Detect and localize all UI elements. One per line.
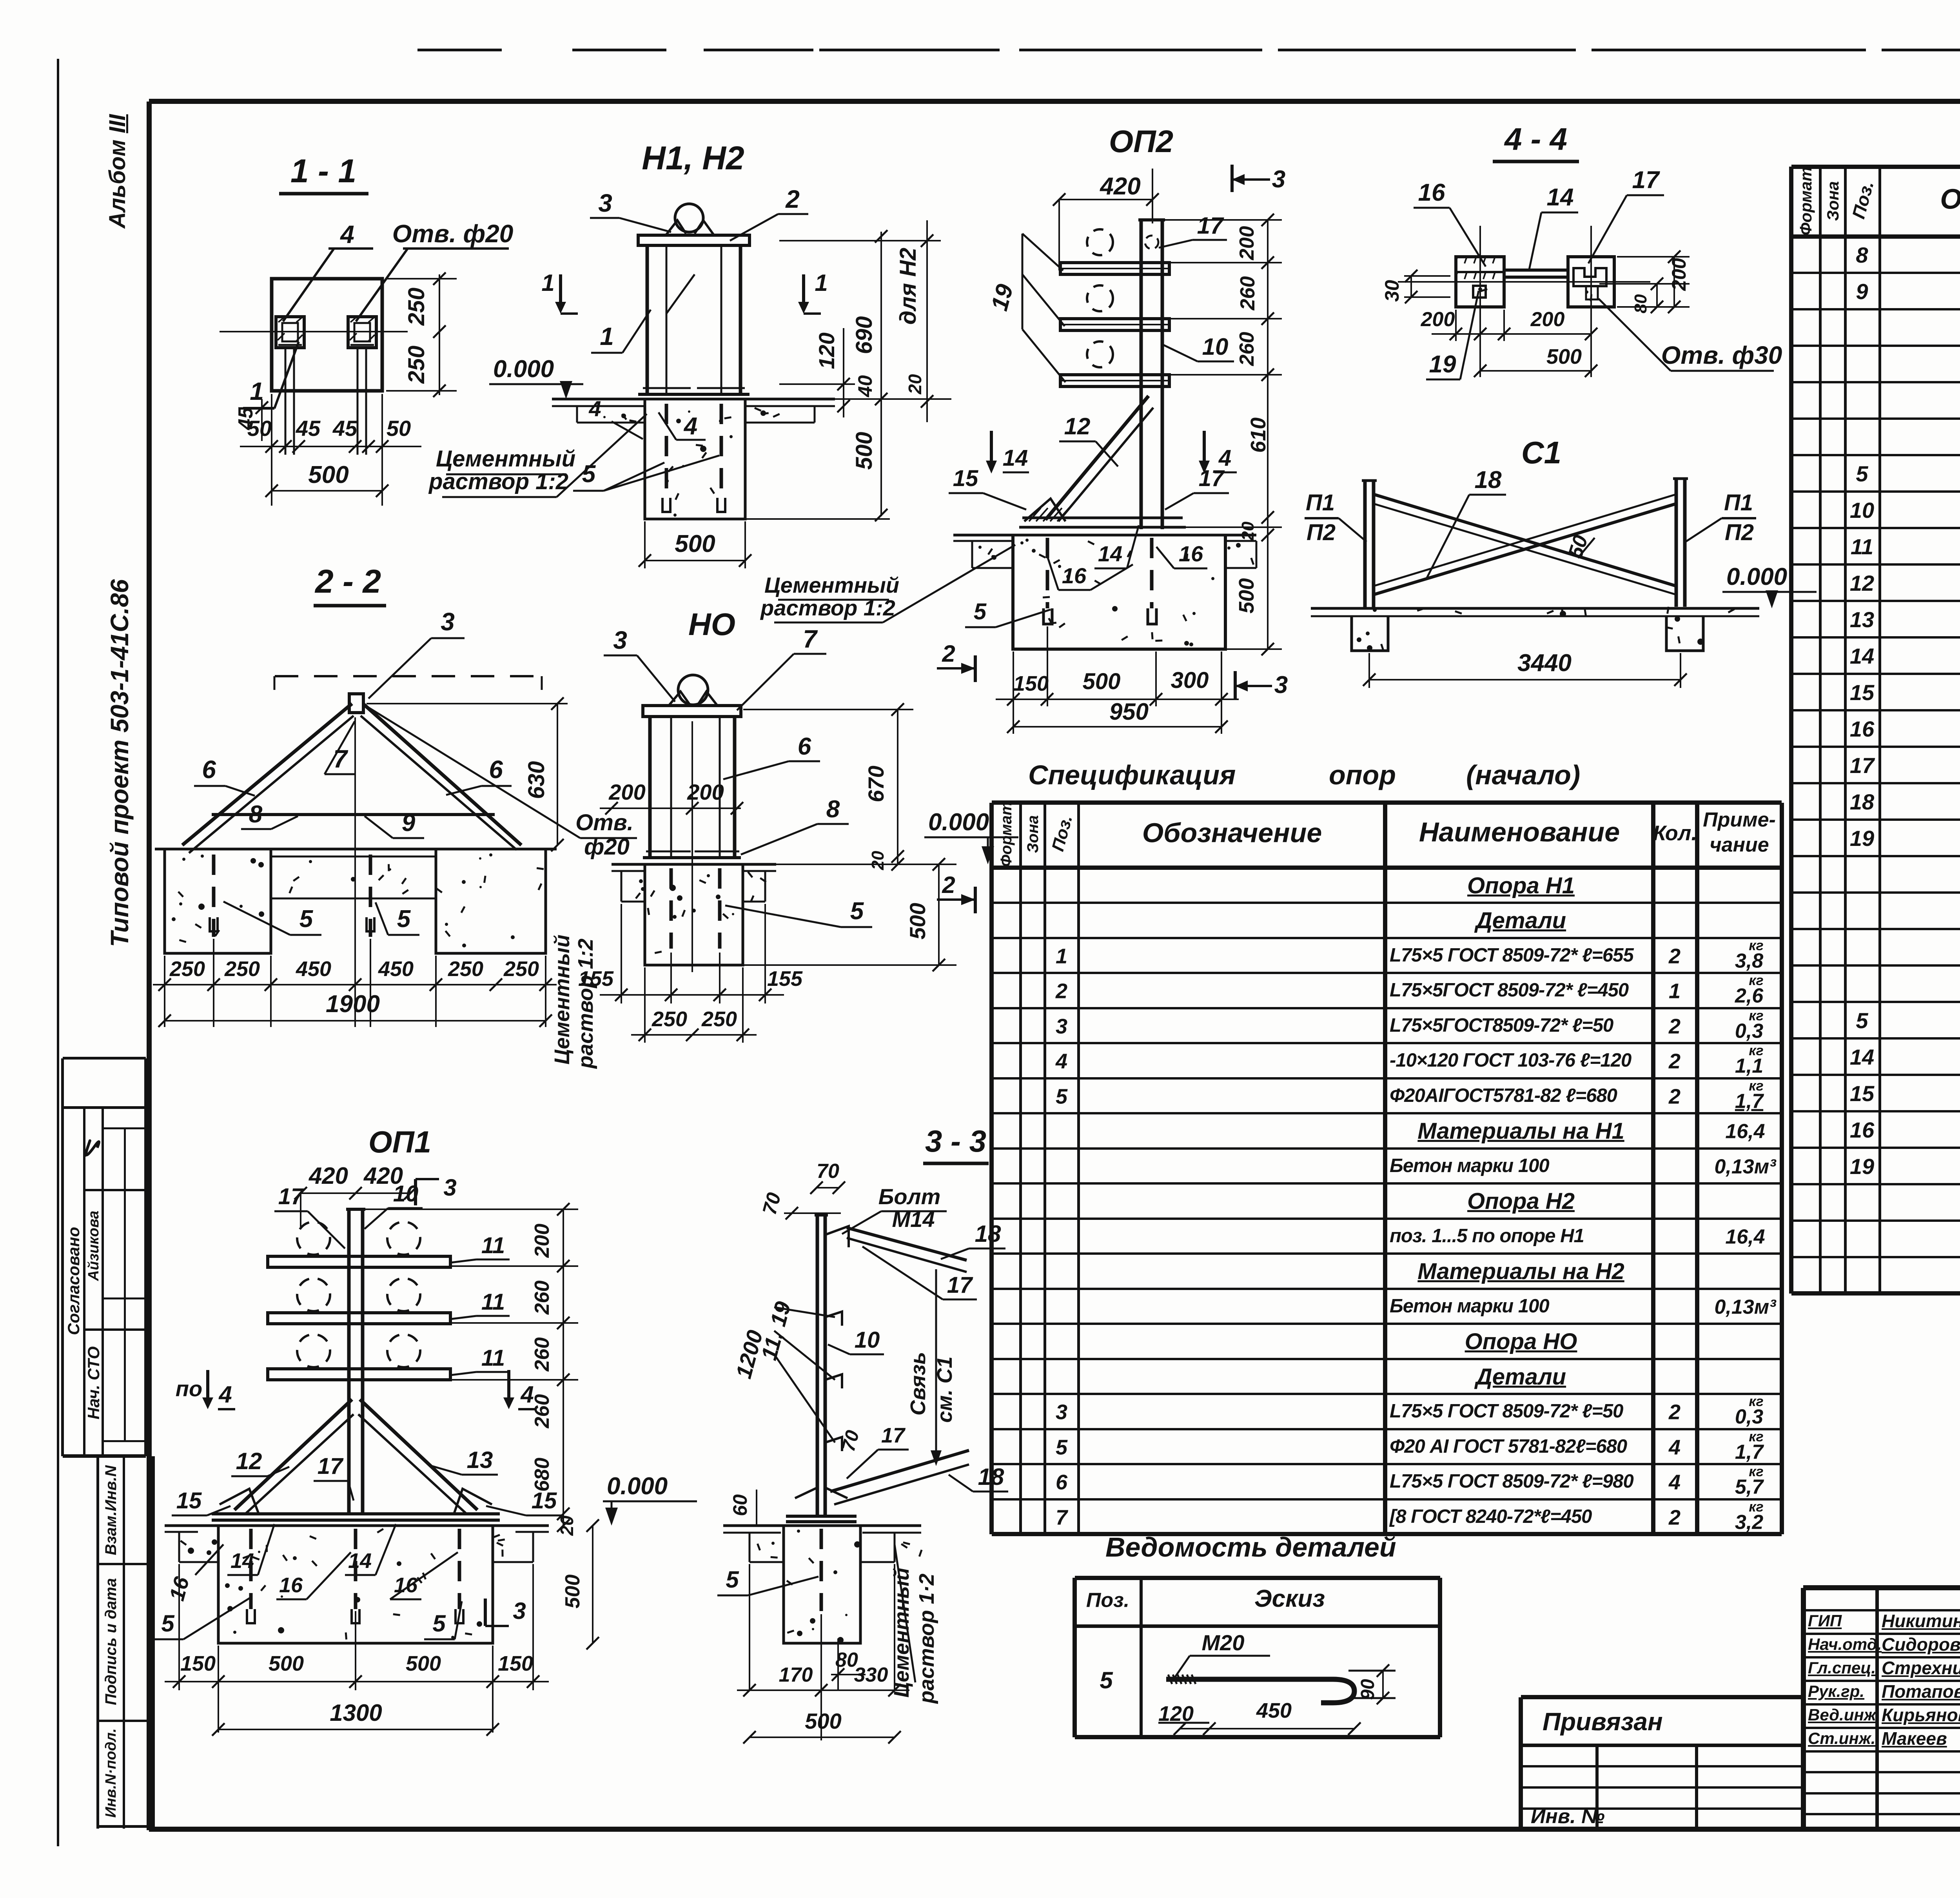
svg-text:50: 50 bbox=[387, 416, 411, 441]
svg-text:раствор 1:2: раствор 1:2 bbox=[574, 938, 597, 1069]
svg-text:4: 4 bbox=[683, 413, 697, 440]
svg-text:200: 200 bbox=[1421, 308, 1455, 331]
svg-text:ОП2: ОП2 bbox=[1109, 124, 1173, 159]
specification table (start) bbox=[1028, 761, 1236, 789]
svg-text:19: 19 bbox=[1429, 351, 1456, 378]
svg-text:170: 170 bbox=[779, 1664, 813, 1686]
svg-text:2: 2 bbox=[942, 872, 955, 898]
svg-text:950: 950 bbox=[1109, 699, 1149, 725]
svg-text:12: 12 bbox=[236, 1448, 262, 1474]
svg-text:8: 8 bbox=[826, 796, 840, 823]
svg-text:3: 3 bbox=[441, 608, 455, 636]
svg-text:17: 17 bbox=[881, 1424, 906, 1447]
svg-text:по: по bbox=[176, 1376, 202, 1401]
svg-text:5: 5 bbox=[299, 905, 314, 933]
svg-text:200: 200 bbox=[608, 780, 645, 804]
svg-text:40: 40 bbox=[854, 375, 876, 397]
svg-text:П1: П1 bbox=[1306, 490, 1335, 515]
svg-text:4 - 4: 4 - 4 bbox=[1504, 122, 1567, 156]
svg-text:18: 18 bbox=[1475, 466, 1502, 494]
left margin stamp column bbox=[106, 114, 129, 229]
svg-text:5: 5 bbox=[582, 461, 596, 488]
svg-text:1200: 1200 bbox=[731, 1328, 768, 1381]
svg-text:250: 250 bbox=[404, 346, 429, 384]
svg-text:260: 260 bbox=[531, 1281, 554, 1315]
parts list table (Ведомость деталей) bbox=[1105, 1533, 1396, 1561]
svg-text:раствор 1·2: раствор 1·2 bbox=[915, 1573, 938, 1704]
svg-text:13: 13 bbox=[467, 1447, 493, 1473]
svg-text:250: 250 bbox=[169, 957, 205, 981]
svg-text:0.000: 0.000 bbox=[607, 1473, 668, 1500]
svg-text:500: 500 bbox=[269, 1652, 304, 1675]
svg-text:20: 20 bbox=[905, 374, 925, 395]
svg-text:90: 90 bbox=[1357, 1679, 1378, 1700]
svg-text:12: 12 bbox=[1064, 413, 1091, 439]
svg-text:14: 14 bbox=[1547, 184, 1574, 211]
svg-text:20: 20 bbox=[557, 1515, 577, 1536]
svg-text:680: 680 bbox=[531, 1458, 554, 1492]
svg-text:6: 6 bbox=[798, 733, 811, 760]
svg-text:150: 150 bbox=[498, 1652, 533, 1675]
svg-text:200: 200 bbox=[1668, 258, 1690, 291]
svg-text:500: 500 bbox=[805, 1709, 841, 1733]
svg-text:4: 4 bbox=[218, 1381, 232, 1408]
svg-text:500: 500 bbox=[1546, 345, 1582, 368]
svg-text:П2: П2 bbox=[1725, 520, 1754, 545]
svg-text:14: 14 bbox=[230, 1549, 254, 1573]
svg-text:15: 15 bbox=[953, 466, 978, 491]
svg-text:260: 260 bbox=[1236, 332, 1258, 367]
svg-text:раствор 1:2: раствор 1:2 bbox=[428, 469, 568, 494]
svg-text:6: 6 bbox=[202, 755, 216, 784]
svg-text:Отв. ф20: Отв. ф20 bbox=[392, 220, 514, 248]
svg-text:3: 3 bbox=[598, 189, 612, 217]
svg-text:17: 17 bbox=[1197, 212, 1224, 239]
svg-text:16: 16 bbox=[1062, 563, 1087, 588]
svg-text:250: 250 bbox=[701, 1007, 737, 1031]
svg-text:150: 150 bbox=[1013, 672, 1049, 695]
svg-text:5: 5 bbox=[161, 1610, 175, 1637]
svg-text:5: 5 bbox=[850, 898, 864, 925]
svg-text:670: 670 bbox=[864, 766, 888, 802]
svg-text:690: 690 bbox=[851, 316, 877, 354]
svg-text:Связь: Связь bbox=[906, 1352, 930, 1415]
svg-text:250: 250 bbox=[404, 288, 429, 326]
svg-text:2: 2 bbox=[785, 185, 800, 213]
svg-text:500: 500 bbox=[561, 1575, 584, 1609]
svg-text:80: 80 bbox=[1631, 294, 1650, 313]
svg-text:2 - 2: 2 - 2 bbox=[314, 563, 381, 600]
svg-text:16: 16 bbox=[1418, 179, 1445, 206]
svg-text:15: 15 bbox=[176, 1488, 202, 1513]
svg-text:П1: П1 bbox=[1724, 490, 1753, 515]
svg-text:1: 1 bbox=[600, 322, 614, 350]
svg-text:200: 200 bbox=[531, 1224, 554, 1258]
svg-text:70: 70 bbox=[758, 1190, 785, 1217]
svg-text:450: 450 bbox=[296, 957, 331, 981]
svg-text:70: 70 bbox=[817, 1160, 839, 1183]
svg-text:200: 200 bbox=[687, 780, 724, 804]
svg-text:500: 500 bbox=[851, 432, 877, 470]
svg-text:10: 10 bbox=[1202, 334, 1229, 360]
svg-text:17: 17 bbox=[947, 1272, 973, 1298]
svg-text:330: 330 bbox=[854, 1664, 888, 1686]
svg-text:155: 155 bbox=[767, 967, 803, 991]
svg-text:П2: П2 bbox=[1307, 520, 1336, 545]
svg-text:3: 3 bbox=[443, 1174, 456, 1201]
svg-text:3: 3 bbox=[1274, 671, 1288, 699]
svg-text:НО: НО bbox=[688, 607, 735, 642]
svg-text:0.000: 0.000 bbox=[1726, 563, 1787, 590]
svg-text:500: 500 bbox=[308, 461, 348, 488]
svg-text:17: 17 bbox=[1199, 466, 1225, 491]
svg-text:Н1, Н2: Н1, Н2 bbox=[642, 140, 744, 176]
svg-text:250: 250 bbox=[652, 1007, 687, 1031]
svg-text:260: 260 bbox=[531, 1337, 554, 1372]
svg-text:9: 9 bbox=[402, 809, 416, 836]
svg-text:ОП1: ОП1 bbox=[368, 1125, 431, 1159]
svg-text:30: 30 bbox=[1381, 280, 1403, 302]
svg-text:Болт: Болт bbox=[878, 1184, 940, 1209]
svg-text:630: 630 bbox=[524, 761, 549, 799]
svg-text:250: 250 bbox=[503, 957, 539, 981]
svg-text:7: 7 bbox=[803, 625, 818, 653]
svg-text:20: 20 bbox=[868, 851, 887, 870]
svg-text:45: 45 bbox=[332, 416, 358, 441]
svg-text:300: 300 bbox=[1171, 668, 1209, 693]
svg-text:16: 16 bbox=[1179, 541, 1203, 566]
svg-text:150: 150 bbox=[180, 1652, 216, 1675]
svg-text:17: 17 bbox=[278, 1184, 305, 1209]
svg-text:200: 200 bbox=[1236, 226, 1258, 261]
svg-text:6: 6 bbox=[489, 755, 503, 784]
svg-text:5: 5 bbox=[397, 905, 411, 933]
svg-text:М20: М20 bbox=[1202, 1630, 1245, 1655]
svg-text:8: 8 bbox=[249, 801, 263, 828]
svg-text:18: 18 bbox=[975, 1221, 1001, 1247]
svg-text:0.000: 0.000 bbox=[493, 356, 554, 383]
svg-text:Отв.: Отв. bbox=[575, 810, 633, 835]
svg-text:500: 500 bbox=[406, 1652, 441, 1675]
title block bbox=[1803, 1585, 1960, 1590]
svg-text:500: 500 bbox=[905, 903, 930, 939]
sheet border frame bbox=[57, 59, 59, 1846]
svg-text:Цементный: Цементный bbox=[764, 573, 899, 597]
svg-text:1300: 1300 bbox=[330, 1700, 382, 1726]
svg-text:для Н2: для Н2 bbox=[895, 248, 921, 325]
svg-text:2: 2 bbox=[942, 641, 955, 667]
svg-text:500: 500 bbox=[675, 530, 715, 557]
svg-text:16: 16 bbox=[279, 1573, 303, 1597]
svg-text:5: 5 bbox=[726, 1566, 739, 1593]
svg-text:14: 14 bbox=[1003, 445, 1028, 471]
svg-text:17: 17 bbox=[1632, 167, 1660, 194]
svg-text:3440: 3440 bbox=[1517, 650, 1572, 677]
svg-text:60: 60 bbox=[729, 1494, 751, 1516]
svg-text:7: 7 bbox=[333, 745, 348, 773]
svg-text:14: 14 bbox=[348, 1549, 372, 1573]
svg-text:Отв. ф30: Отв. ф30 bbox=[1661, 341, 1782, 369]
svg-text:0.000: 0.000 bbox=[928, 809, 989, 836]
svg-text:120: 120 bbox=[1158, 1702, 1194, 1726]
svg-text:10: 10 bbox=[855, 1327, 880, 1353]
svg-text:19: 19 bbox=[986, 281, 1018, 313]
svg-text:500: 500 bbox=[1083, 669, 1121, 694]
svg-text:610: 610 bbox=[1247, 417, 1270, 453]
svg-text:500: 500 bbox=[1235, 578, 1258, 613]
svg-text:260: 260 bbox=[531, 1394, 554, 1429]
svg-text:1: 1 bbox=[541, 270, 554, 296]
svg-text:420: 420 bbox=[309, 1163, 348, 1189]
svg-text:1900: 1900 bbox=[326, 991, 380, 1018]
svg-text:250: 250 bbox=[224, 957, 260, 981]
svg-text:11: 11 bbox=[481, 1289, 505, 1315]
svg-text:4: 4 bbox=[339, 220, 354, 249]
svg-text:45: 45 bbox=[296, 416, 321, 441]
svg-text:18: 18 bbox=[978, 1464, 1004, 1490]
svg-text:5: 5 bbox=[432, 1610, 446, 1637]
svg-text:3: 3 bbox=[613, 626, 627, 654]
svg-text:120: 120 bbox=[814, 332, 839, 369]
svg-text:11: 11 bbox=[481, 1345, 505, 1371]
svg-text:3: 3 bbox=[1272, 166, 1285, 193]
svg-text:450: 450 bbox=[1256, 1699, 1292, 1722]
svg-text:450: 450 bbox=[378, 957, 414, 981]
svg-text:3: 3 bbox=[513, 1598, 526, 1624]
svg-text:14: 14 bbox=[1098, 541, 1122, 566]
svg-text:420: 420 bbox=[1099, 173, 1140, 200]
svg-text:11: 11 bbox=[481, 1233, 505, 1258]
svg-text:1: 1 bbox=[815, 270, 828, 296]
svg-text:200: 200 bbox=[1530, 308, 1565, 331]
svg-text:17: 17 bbox=[318, 1453, 344, 1479]
svg-text:250: 250 bbox=[448, 957, 483, 981]
svg-text:20: 20 bbox=[1238, 521, 1258, 541]
svg-text:Цементный: Цементный bbox=[550, 934, 574, 1065]
svg-text:Цементный: Цементный bbox=[436, 446, 575, 472]
svg-text:4: 4 bbox=[588, 396, 601, 421]
svg-text:260: 260 bbox=[1236, 276, 1259, 311]
svg-text:155: 155 bbox=[578, 967, 614, 991]
svg-text:1 - 1: 1 - 1 bbox=[290, 152, 356, 189]
svg-text:5: 5 bbox=[974, 599, 987, 624]
svg-text:45: 45 bbox=[234, 407, 257, 430]
svg-text:С1: С1 bbox=[1521, 435, 1561, 470]
svg-text:3 - 3: 3 - 3 bbox=[925, 1124, 986, 1158]
Привязан sub-table bbox=[1521, 1695, 1803, 1699]
